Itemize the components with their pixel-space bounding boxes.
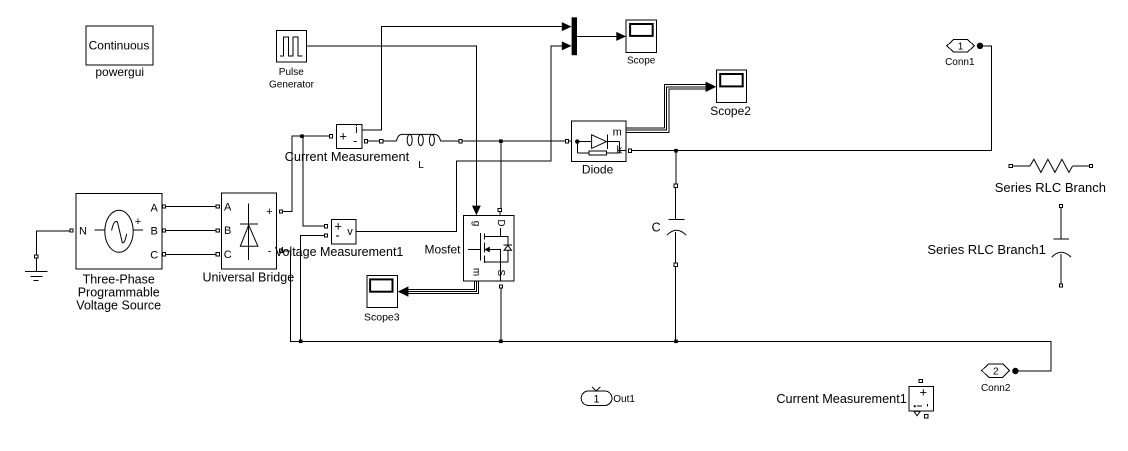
powergui block (86, 26, 153, 65)
svg-text:N: N (79, 226, 87, 238)
svg-text:Voltage Source: Voltage Source (76, 299, 161, 313)
scope2 block (716, 70, 746, 103)
svg-text:Mosfet: Mosfet (424, 243, 461, 257)
mux block (572, 17, 577, 55)
svg-text:2: 2 (993, 366, 999, 377)
out1 port oval (581, 391, 612, 405)
signal wire VM v to mux input 2 (356, 46, 562, 232)
svg-text:m: m (471, 268, 482, 276)
svg-text:C: C (150, 249, 158, 261)
wire N to ground (37, 231, 70, 255)
junction node CM plus / VM plus (300, 134, 304, 138)
scope input arrow (616, 32, 626, 41)
conn2 port hexagon (982, 364, 1010, 378)
wire bridge minus to bottom rail (283, 251, 1051, 371)
port CM1 bottom (925, 415, 928, 418)
ground symbol (25, 258, 47, 280)
port diode cathode (628, 149, 631, 152)
three-phase programmable voltage source block (76, 193, 162, 269)
port RLC left (1009, 165, 1012, 168)
svg-text:Pulse: Pulse (279, 67, 304, 78)
series RLC branch1 capacitor (1052, 208, 1071, 284)
conn2 dot (1012, 368, 1018, 374)
signal wire pulse generator to mosfet gate (307, 46, 477, 206)
scope3 input arrow (398, 286, 409, 296)
port bridge C (216, 253, 219, 256)
svg-text:g: g (471, 221, 482, 227)
port source B (162, 229, 165, 232)
svg-text:Series RLC Branch1: Series RLC Branch1 (927, 242, 1046, 257)
svg-text:+: + (920, 384, 928, 399)
svg-text:B: B (151, 225, 158, 237)
svg-text:A: A (151, 202, 159, 214)
svg-text:-: - (268, 246, 272, 258)
port capacitor top (674, 184, 677, 187)
wire phase B (166, 229, 217, 231)
svg-text:+: + (266, 206, 272, 218)
svg-text:Scope3: Scope3 (364, 311, 400, 323)
main wire L to diode anode (462, 140, 571, 142)
svg-text:Conn2: Conn2 (981, 383, 1011, 394)
current measurement block CM (337, 124, 363, 148)
universal bridge block (221, 193, 276, 269)
junction node mosfet drain tap (499, 139, 503, 143)
conn1 port hexagon (947, 39, 975, 52)
port RLC right (1090, 165, 1093, 168)
wire diode k to conn1 riser (632, 46, 992, 151)
port bridge plus (279, 210, 282, 213)
svg-text:Generator: Generator (269, 79, 315, 90)
port VM plus (325, 225, 328, 228)
svg-text:Universal Bridge: Universal Bridge (202, 270, 294, 284)
wire node to VM plus (303, 136, 325, 226)
port source A (162, 205, 165, 208)
port RLC1 bottom (1059, 284, 1062, 287)
wire drain tap down to mosfet D (500, 141, 502, 208)
signal wire CM i to mux input 1 (362, 27, 562, 130)
signal bundle mosfet m to scope3 (408, 281, 478, 294)
wire phase C (166, 253, 217, 255)
mosfet block (464, 216, 515, 282)
svg-text:C: C (224, 249, 232, 261)
svg-text:Scope: Scope (627, 56, 656, 67)
junction node rail mosfet S (499, 340, 503, 344)
port mosfet S (499, 285, 502, 288)
scope2 input arrow (706, 82, 717, 92)
current measurement1 unconnected output arrow (914, 411, 920, 415)
svg-text:L: L (418, 160, 424, 171)
svg-text:v: v (347, 226, 353, 238)
svg-text:Continuous: Continuous (89, 39, 150, 53)
svg-text:D: D (495, 219, 506, 226)
port capacitor bottom (674, 263, 677, 266)
svg-text:powergui: powergui (95, 65, 144, 79)
series RLC branch resistor (1012, 159, 1089, 172)
svg-text:B: B (224, 225, 231, 237)
svg-text:+: + (339, 128, 347, 143)
svg-text:Current Measurement1: Current Measurement1 (776, 392, 906, 406)
svg-text:1: 1 (958, 42, 964, 53)
wire mux to scope (577, 35, 617, 37)
port diode anode (565, 140, 568, 143)
svg-text:k: k (617, 145, 623, 157)
conn1 dot (977, 43, 983, 49)
capacitor C branch (667, 151, 686, 342)
svg-text:Scope2: Scope2 (710, 104, 751, 118)
current measurement1 block CM1 (909, 384, 934, 411)
svg-text:-: - (353, 133, 357, 148)
svg-text:C: C (652, 221, 661, 235)
wire phase A (166, 206, 217, 208)
port L left (380, 140, 383, 143)
port bridge A (216, 205, 219, 208)
ground port (35, 255, 38, 258)
out1 unconnected marker (592, 387, 600, 391)
junction node rail VM minus (299, 340, 303, 344)
wire mosfet S to rail (500, 288, 502, 341)
svg-text:Three-Phase: Three-Phase (83, 272, 155, 286)
svg-text:m: m (613, 126, 622, 138)
wire bridge plus to CM plus (283, 136, 330, 211)
mux input arrow 1 (562, 22, 572, 31)
port VM minus (325, 234, 328, 237)
svg-text:-: - (335, 228, 339, 243)
port source C (162, 253, 165, 256)
port CM minus (365, 140, 368, 143)
port bridge B (216, 229, 219, 232)
svg-text:Diode: Diode (582, 163, 614, 177)
svg-text:Out1: Out1 (613, 394, 635, 405)
port RLC1 top (1059, 204, 1062, 207)
diode block (571, 121, 626, 161)
svg-text:Voltage Measurement1: Voltage Measurement1 (275, 245, 404, 259)
svg-text:Programmable: Programmable (78, 286, 160, 300)
scope block (626, 20, 657, 53)
wire VM minus to bottom rail (301, 236, 325, 342)
junction node capacitor tap (674, 149, 678, 153)
svg-text:1: 1 (593, 393, 599, 405)
svg-text:Conn1: Conn1 (945, 57, 975, 68)
port bridge minus (279, 249, 282, 252)
port CM plus (329, 135, 332, 138)
mosfet gate arrow (472, 206, 481, 216)
inductor L series RLC branch (383, 134, 459, 145)
port CM1 top (919, 379, 922, 382)
pulse generator PG (276, 31, 306, 63)
mux input arrow 2 (562, 41, 572, 50)
voltage measurement1 block VM (332, 218, 357, 243)
scope3 block (367, 275, 398, 307)
stub D port to block (499, 212, 501, 216)
svg-text:Series RLC Branch: Series RLC Branch (995, 180, 1106, 195)
junction node rail capacitor (674, 340, 678, 344)
wire CM minus to inductor (368, 140, 380, 142)
signal bundle diode m to scope2 (626, 85, 706, 133)
port L right (459, 140, 462, 143)
port N (70, 229, 73, 232)
port mosfet D (498, 209, 501, 212)
svg-text:A: A (224, 201, 232, 213)
svg-text:+: + (135, 216, 141, 228)
